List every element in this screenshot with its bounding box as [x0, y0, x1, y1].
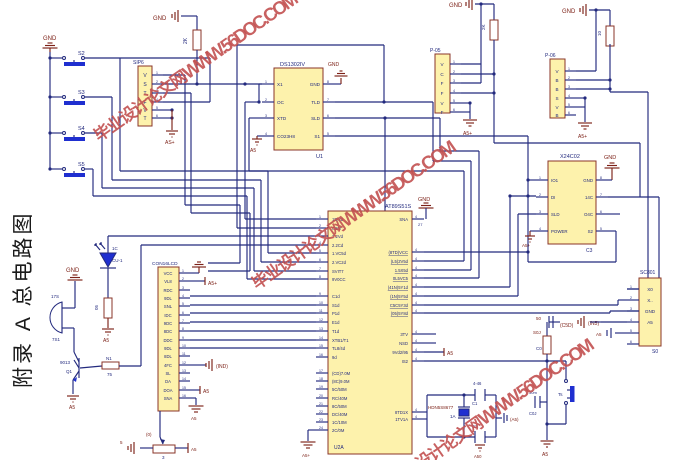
pin P3-6 stub	[565, 111, 576, 115]
svg-text:F: F	[441, 81, 444, 86]
svg-text:A5+: A5+	[578, 134, 587, 140]
svg-text:4: 4	[415, 301, 417, 305]
svg-text:C3: C3	[586, 248, 593, 254]
svg-text:(8TD)VCC: (8TD)VCC	[388, 250, 408, 255]
watermark 3	[385, 334, 597, 465]
svg-text:S5: S5	[78, 162, 85, 168]
pin U3 left 2	[536, 193, 548, 197]
ground GND at U3 pin8	[604, 155, 620, 180]
svg-text:P1d: P1d	[332, 311, 340, 316]
svg-text:GND: GND	[328, 62, 340, 68]
pin U3 left 1	[536, 176, 548, 180]
svg-text:1C: 1C	[112, 246, 119, 251]
svg-text:1.5X5d: 1.5X5d	[395, 268, 409, 273]
svg-text:A50: A50	[474, 454, 482, 459]
ground rotated left of RV1	[120, 440, 153, 454]
pin P1-16 stub	[179, 394, 190, 398]
svg-text:7: 7	[182, 319, 184, 323]
potentiometer RV1	[146, 432, 175, 460]
svg-text:HDN5S8677: HDN5S8677	[428, 405, 454, 410]
switch S4	[48, 126, 102, 141]
svg-text:CU-1: CU-1	[112, 258, 123, 263]
wire P2 pin5-6 gnd	[461, 101, 472, 119]
pin P2-2 stub	[450, 70, 461, 74]
svg-text:4: 4	[415, 274, 417, 278]
svg-text:1TV1A: 1TV1A	[395, 417, 408, 422]
svg-text:1: 1	[319, 215, 321, 219]
svg-text:C1: C1	[472, 401, 478, 406]
svg-text:SIP6: SIP6	[133, 60, 144, 66]
svg-text:TL8/4d: TL8/4d	[332, 346, 346, 351]
pin U2 left 18	[316, 377, 328, 381]
svg-text:1: 1	[539, 176, 541, 180]
svg-text:DI: DI	[551, 195, 555, 200]
wire P1 to RV1	[159, 411, 161, 437]
ground A5 below reset	[541, 441, 554, 458]
svg-text:4: 4	[415, 415, 417, 419]
wire P0.5 to U3 pin3	[424, 214, 536, 296]
wire P0.7 to P4	[424, 311, 627, 313]
svg-text:1: 1	[182, 269, 184, 273]
wire P3 pin4-5 gnd	[576, 96, 587, 122]
pin P4-5 stub	[627, 329, 639, 333]
pin P1-14 stub	[179, 377, 190, 381]
svg-text:SNA: SNA	[399, 217, 408, 222]
pin U2 left 10	[316, 301, 328, 305]
switch S3	[48, 90, 112, 105]
svg-text:CON16LCD: CON16LCD	[152, 261, 178, 267]
wire S1 pin4	[163, 58, 210, 102]
pin U2 left 1	[316, 215, 328, 219]
pin U2 right 2	[412, 257, 424, 261]
svg-text:4-46: 4-46	[473, 381, 482, 386]
svg-text:S2: S2	[588, 229, 594, 234]
svg-text:A5+: A5+	[302, 453, 311, 458]
pin U2 right 4	[412, 274, 424, 278]
wire key3 to MCU	[102, 133, 316, 271]
resistor R3	[94, 298, 112, 318]
pin P3-2 stub	[565, 76, 576, 80]
svg-text:A5: A5	[447, 351, 453, 357]
svg-text:7: 7	[327, 98, 329, 102]
wire N1 to MCU	[119, 245, 316, 366]
svg-text:IO1: IO1	[551, 178, 559, 183]
capacitor C8 right	[496, 413, 519, 423]
svg-text:Ts: Ts	[558, 392, 563, 397]
svg-text:5: 5	[630, 329, 632, 333]
wire P0.2	[424, 269, 471, 271]
svg-text:3TV: 3TV	[400, 332, 408, 337]
svg-text:1: 1	[568, 67, 570, 71]
title text 附录A 总电路图	[12, 210, 35, 388]
capacitor C5 and ground	[536, 316, 574, 329]
svg-text:S0J: S0J	[533, 330, 541, 335]
svg-text:2: 2	[453, 70, 455, 74]
wire ALE stub	[424, 333, 436, 335]
svg-text:4: 4	[415, 408, 417, 412]
svg-text:6: 6	[453, 108, 455, 112]
wire PSEN stub	[424, 342, 436, 344]
svg-text:GND: GND	[583, 178, 593, 183]
svg-text:C1d: C1d	[332, 294, 340, 299]
svg-text:RC/40M: RC/40M	[332, 396, 348, 401]
svg-text:5: 5	[600, 227, 602, 231]
svg-text:SNA: SNA	[164, 396, 173, 401]
svg-text:C5C5Y3d: C5C5Y3d	[390, 303, 409, 308]
svg-text:S2: S2	[78, 51, 85, 57]
pin U2 left 9	[316, 292, 328, 296]
pin U2 right 0	[412, 215, 424, 219]
svg-text:2: 2	[539, 193, 541, 197]
pin U2 right 14	[412, 415, 424, 419]
wire LED cathode	[107, 268, 109, 298]
svg-text:4: 4	[453, 89, 455, 93]
svg-text:4: 4	[568, 94, 570, 98]
svg-text:4: 4	[415, 357, 417, 361]
svg-text:12: 12	[182, 361, 186, 365]
svg-text:7: 7	[319, 267, 321, 271]
svg-text:24: 24	[319, 426, 323, 430]
pin P1-12 stub	[179, 361, 190, 365]
pin U2 right 6	[412, 292, 424, 296]
svg-text:(C5D): (C5D)	[560, 323, 574, 329]
pin P4-4 stub	[627, 318, 639, 322]
pin U2 left 8	[316, 275, 328, 279]
svg-text:1.VC5d: 1.VC5d	[332, 251, 347, 256]
resistor R5	[597, 10, 614, 92]
svg-text:2: 2	[182, 277, 184, 281]
pin P3-3 stub	[565, 85, 576, 89]
svg-text:GND: GND	[645, 309, 656, 314]
pin S1-1 stub	[152, 71, 163, 75]
svg-text:8: 8	[600, 176, 602, 180]
svg-text:B: B	[555, 87, 558, 92]
svg-text:U1: U1	[316, 154, 323, 160]
svg-text:A5: A5	[69, 405, 75, 411]
svg-text:20: 20	[319, 394, 323, 398]
svg-text:5C/50M: 5C/50M	[332, 387, 347, 392]
svg-text:NSD: NSD	[399, 341, 408, 346]
pin S1-5 stub	[152, 106, 163, 110]
svg-text:(05)5Y8d: (05)5Y8d	[391, 311, 409, 316]
svg-text:16: 16	[182, 394, 186, 398]
wire buzzer to Q1	[74, 328, 79, 362]
wire U3 pin6 stub	[608, 213, 620, 215]
pin U2 left 6	[316, 258, 328, 262]
svg-text:15: 15	[319, 344, 323, 348]
svg-text:11: 11	[319, 309, 323, 313]
wire XTAL1 row	[424, 418, 427, 420]
svg-text:4: 4	[539, 227, 541, 231]
resistor R6 reset	[533, 322, 551, 354]
svg-text:6: 6	[600, 210, 602, 214]
svg-text:9d: 9d	[332, 355, 337, 360]
ground GND rotated at P1 pin12	[190, 359, 228, 371]
ground GND above P1	[190, 262, 206, 273]
wire U3 pin1 loop	[528, 179, 536, 181]
svg-text:6: 6	[156, 114, 158, 118]
svg-text:5: 5	[453, 99, 455, 103]
pin U2 left 14	[316, 336, 328, 340]
pin P1-8 stub	[179, 327, 190, 331]
svg-text:B: B	[555, 78, 558, 83]
pin P2-1 stub	[450, 60, 461, 64]
switch S2	[48, 51, 210, 66]
svg-text:23: 23	[319, 418, 323, 422]
svg-text:11: 11	[182, 352, 186, 356]
svg-text:Q1: Q1	[66, 369, 73, 374]
pin U2 left 17	[316, 369, 328, 373]
wire U1 TLD loop	[237, 45, 386, 228]
crystal network frame	[427, 393, 496, 438]
pin P1-2 stub	[179, 277, 190, 281]
svg-text:B: B	[555, 113, 558, 118]
svg-text:4: 4	[415, 266, 417, 270]
pin U1 left 2	[262, 98, 285, 105]
power right of RV1	[175, 443, 197, 453]
pin U2 left 2	[316, 224, 328, 228]
pin U2 left 5	[316, 249, 328, 253]
wire LCD data bus rows	[190, 296, 316, 348]
svg-text:4: 4	[415, 292, 417, 296]
pin P4-1 stub	[627, 285, 639, 289]
svg-text:5: 5	[182, 302, 184, 306]
svg-text:4: 4	[415, 309, 417, 313]
svg-text:X24C02: X24C02	[560, 154, 580, 160]
svg-text:A5: A5	[250, 148, 256, 154]
wire U3 pin5 loop	[528, 231, 616, 262]
capacitor C7 reset	[529, 390, 547, 416]
wire S1 pin3 net	[163, 93, 250, 271]
svg-text:E1d: E1d	[332, 320, 340, 325]
svg-text:CO23H8: CO23H8	[277, 134, 295, 139]
pin U2 left 22	[316, 410, 328, 414]
power symbol GND (top-left)	[43, 36, 58, 52]
svg-text:14C: 14C	[585, 195, 593, 200]
wire U1 TLD net	[335, 102, 471, 270]
svg-text:S4: S4	[78, 126, 85, 132]
pin S1-3 stub	[152, 89, 163, 93]
svg-text:1: 1	[156, 71, 158, 75]
pin U2 right 11	[412, 348, 424, 352]
wire S1 pin2 to R2 and U1	[163, 82, 262, 85]
svg-text:1A: 1A	[450, 414, 457, 419]
svg-text:1C/10M: 1C/10M	[332, 420, 347, 425]
pin P2-5 stub	[450, 99, 461, 103]
pin S1-2 stub	[152, 80, 163, 84]
svg-text:GND: GND	[43, 36, 57, 42]
pin P1-15 stub	[179, 386, 190, 390]
svg-text:VCC: VCC	[164, 271, 173, 276]
connector S1 header	[133, 60, 152, 126]
wire P3 long net	[610, 92, 648, 289]
ground GND above buzzer	[66, 268, 83, 308]
svg-text:2: 2	[630, 296, 632, 300]
pin U2 left 15	[316, 344, 328, 348]
pin U2 right 1	[412, 248, 424, 252]
svg-text:6: 6	[568, 111, 570, 115]
svg-text:4: 4	[415, 348, 417, 352]
svg-text:(8C)9.0M: (8C)9.0M	[332, 379, 350, 384]
wire key bus vertical	[49, 52, 51, 169]
op-amp U1 chip body	[274, 62, 323, 160]
svg-text:OC: OC	[277, 100, 285, 105]
capacitor C6 at P4 pin5	[596, 328, 627, 338]
svg-text:(A5): (A5)	[510, 417, 519, 422]
svg-text:6: 6	[182, 311, 184, 315]
ground A5 below Q1	[67, 396, 79, 411]
ground GND rotated above P2	[449, 0, 494, 10]
svg-text:S3: S3	[78, 90, 85, 96]
pin P1-11 stub	[179, 352, 190, 356]
svg-text:(41N)5Y1d: (41N)5Y1d	[388, 285, 409, 290]
pin U3 right 7	[596, 193, 608, 197]
svg-text:8: 8	[182, 327, 184, 331]
pin U1 left 4	[262, 132, 295, 139]
svg-text:12: 12	[319, 318, 323, 322]
svg-text:3: 3	[265, 114, 267, 118]
pin U2 right 5	[412, 283, 424, 287]
pin P1-6 stub	[179, 311, 190, 315]
svg-text:(IND): (IND)	[216, 364, 228, 370]
pin P4-2 stub	[627, 296, 639, 300]
ground A5 below R3	[102, 329, 114, 344]
pin U2 right 8	[412, 309, 424, 313]
svg-text:DC/40M: DC/40M	[332, 412, 348, 417]
wire R3 bottom	[107, 318, 109, 328]
svg-text:DOA: DOA	[163, 388, 172, 393]
svg-text:9013: 9013	[60, 360, 71, 365]
svg-text:XTB1/T1: XTB1/T1	[332, 338, 349, 343]
pin P1-4 stub	[179, 294, 190, 298]
MCU U2 right labels	[388, 217, 409, 422]
svg-text:SLD: SLD	[311, 116, 321, 121]
svg-text:6: 6	[319, 258, 321, 262]
svg-text:05: 05	[94, 304, 99, 310]
svg-text:A5+: A5+	[522, 243, 531, 248]
svg-text:S: S	[555, 96, 558, 101]
svg-text:10: 10	[182, 344, 186, 348]
svg-text:2K: 2K	[183, 37, 189, 44]
memory U3 chip body	[548, 154, 596, 254]
pin U2 right 12	[412, 357, 424, 361]
svg-text:F: F	[441, 91, 444, 96]
ground GND rotated above P3	[562, 4, 610, 16]
watermark 1	[89, 0, 301, 145]
svg-text:N1: N1	[106, 356, 112, 361]
svg-text:X0: X0	[647, 287, 653, 292]
wire XTAL2 row	[424, 411, 427, 413]
pin U2 left 12	[316, 318, 328, 322]
wire P2 ladder B	[461, 72, 496, 94]
svg-text:3: 3	[182, 286, 184, 290]
wire S1 pin1 net	[163, 75, 240, 263]
svg-text:8: 8	[327, 80, 329, 84]
svg-text:4: 4	[265, 132, 267, 136]
pin U2 right 13	[412, 408, 424, 412]
ground below crystal caps	[474, 445, 485, 459]
svg-text:A5: A5	[596, 332, 602, 337]
svg-text:9DL: 9DL	[164, 346, 172, 351]
pin P3-4 stub	[565, 94, 576, 98]
wire R2 bottom	[196, 50, 198, 84]
svg-text:(1N)5Y5d: (1N)5Y5d	[390, 294, 409, 299]
svg-text:9Vd2/95: 9Vd2/95	[392, 350, 408, 355]
svg-text:GND: GND	[562, 9, 576, 15]
svg-text:TLD: TLD	[311, 100, 320, 105]
svg-text:5: 5	[327, 132, 329, 136]
ground AS+ at U3 pin4	[522, 231, 536, 248]
wire P0.4 to U3 pin2	[424, 194, 536, 287]
svg-text:DDC: DDC	[163, 338, 172, 343]
svg-text:4: 4	[415, 215, 417, 219]
pin U2 left 23	[316, 418, 328, 422]
wire S1 pins5-6 join	[163, 108, 174, 130]
pin U2 left 20	[316, 394, 328, 398]
svg-text:2C/0M: 2C/0M	[332, 428, 345, 433]
wire P0.3	[424, 277, 479, 279]
svg-text:8DL: 8DL	[164, 354, 172, 359]
wire P2 long net	[494, 143, 640, 197]
pin P2-3 stub	[450, 79, 461, 83]
pin U3 right 6	[596, 210, 608, 214]
svg-text:13: 13	[182, 369, 186, 373]
pin U2 left 19	[316, 385, 328, 389]
svg-text:15: 15	[182, 386, 186, 390]
wire U1 pin1-pin2 join	[245, 84, 316, 219]
pin U3 right 5	[596, 227, 608, 231]
svg-text:(0): (0)	[146, 432, 152, 437]
resistor N1	[102, 356, 119, 377]
svg-text:75: 75	[107, 372, 113, 377]
svg-text:GND: GND	[66, 268, 80, 274]
svg-text:4: 4	[415, 283, 417, 287]
svg-text:S1: S1	[314, 134, 320, 139]
svg-text:3: 3	[453, 79, 455, 83]
svg-text:8DC: 8DC	[164, 329, 172, 334]
pin U2 right 7	[412, 301, 424, 305]
resistor R4	[481, 4, 498, 143]
svg-text:GND: GND	[310, 82, 321, 87]
wire Q1 emitter	[72, 380, 74, 394]
svg-text:1: 1	[265, 80, 267, 84]
svg-text:9DC: 9DC	[164, 321, 172, 326]
svg-text:10: 10	[319, 301, 323, 305]
pin P3-1 stub	[565, 67, 576, 71]
svg-text:C0: C0	[536, 346, 542, 351]
pin U1 right 6	[311, 114, 335, 121]
pin U2 left 11	[316, 309, 328, 313]
wire U3 pin7 long	[608, 197, 659, 311]
svg-text:4: 4	[630, 318, 632, 322]
connector P4 header	[639, 270, 661, 355]
svg-text:4: 4	[415, 339, 417, 343]
wire U1 pin3 drop	[249, 118, 464, 261]
wire P4 pin4 to caps	[601, 321, 627, 323]
svg-text:A5: A5	[191, 447, 197, 452]
svg-text:F: F	[441, 110, 444, 115]
svg-text:2.VC2d: 2.VC2d	[332, 260, 347, 265]
wire R2 top	[196, 16, 198, 30]
svg-text:S0: S0	[652, 349, 658, 355]
svg-text:4: 4	[182, 294, 184, 298]
svg-text:9: 9	[182, 336, 184, 340]
ground AS at U1 pin4	[250, 136, 262, 154]
svg-text:14: 14	[319, 336, 323, 340]
svg-text:50: 50	[536, 316, 542, 321]
pin U3 right 8	[596, 176, 608, 180]
wire LED anode row	[108, 236, 316, 253]
